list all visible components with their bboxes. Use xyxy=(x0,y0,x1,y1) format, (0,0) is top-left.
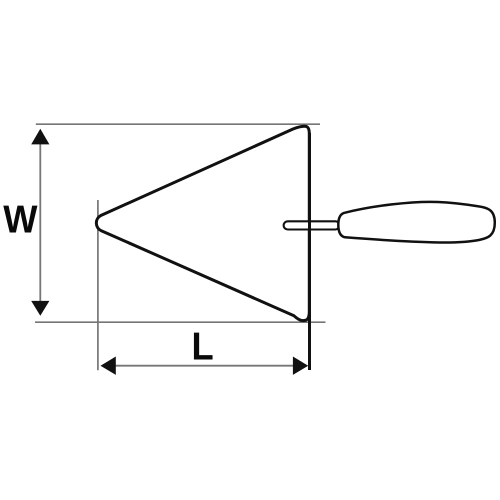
W top arrowhead xyxy=(31,129,49,145)
top extension line xyxy=(36,123,320,125)
left extension line for L xyxy=(97,200,99,370)
L dimension line xyxy=(112,365,297,367)
bottom extension line xyxy=(35,321,326,323)
W bottom arrowhead xyxy=(31,301,49,316)
blade right edge / right extension line for L xyxy=(308,133,311,370)
shank xyxy=(284,221,340,229)
svg-text:W: W xyxy=(3,198,37,241)
L left arrowhead xyxy=(101,357,116,375)
L right arrowhead xyxy=(293,357,308,375)
W dimension line xyxy=(39,142,41,303)
trowel blade xyxy=(96,126,309,320)
svg-text:L: L xyxy=(191,325,213,368)
handle xyxy=(338,202,495,243)
